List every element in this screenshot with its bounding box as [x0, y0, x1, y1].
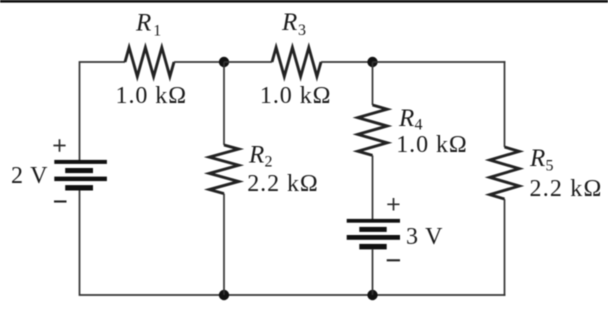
wire bottom right	[373, 294, 506, 296]
wire top-left (corner to R1)	[80, 62, 126, 160]
plus sign of V2	[387, 198, 399, 211]
resistor R4	[358, 105, 387, 155]
svg-text:1.0 kΩ: 1.0 kΩ	[260, 83, 332, 109]
minus sign of V1	[54, 200, 67, 202]
svg-text:3: 3	[298, 22, 306, 39]
wire top-right corner down to R5	[504, 61, 506, 147]
top rule bar	[0, 0, 608, 3]
svg-text:3 V: 3 V	[406, 224, 443, 250]
wire R5 to bottom-right corner	[504, 199, 506, 296]
svg-text:R: R	[281, 9, 297, 36]
wire node A to R3	[224, 61, 272, 63]
resistor R5	[490, 147, 519, 199]
wire R1 to node A	[174, 61, 224, 63]
bottom junction dot of R2 branch	[219, 290, 229, 300]
node A junction dot	[219, 57, 229, 67]
svg-text:R: R	[398, 105, 414, 132]
wire R2 to bottom	[223, 194, 225, 295]
svg-text:1: 1	[153, 22, 161, 39]
wire node B down to R4	[372, 62, 374, 105]
svg-text:2.2 kΩ: 2.2 kΩ	[247, 171, 319, 197]
resistor R2	[209, 145, 238, 194]
battery V1 2 V	[54, 160, 107, 191]
svg-text:2 V: 2 V	[11, 163, 48, 189]
svg-text:5: 5	[546, 157, 554, 174]
svg-text:R: R	[529, 145, 545, 172]
svg-text:R: R	[248, 141, 264, 168]
svg-text:2: 2	[265, 153, 273, 170]
resistor R1	[125, 48, 174, 77]
wire bottom middle	[224, 294, 373, 296]
bottom junction dot of battery V2 branch	[367, 290, 377, 300]
wire node B to top-right corner	[373, 61, 506, 63]
svg-text:1.0 kΩ: 1.0 kΩ	[116, 83, 188, 109]
svg-text:1.0 kΩ: 1.0 kΩ	[396, 132, 468, 158]
wire node A down to R2	[223, 62, 225, 145]
wire R4 to battery V2	[372, 155, 374, 219]
battery V2 3 V	[347, 219, 400, 250]
plus sign of V1	[53, 139, 65, 152]
minus sign of V2	[387, 259, 400, 261]
svg-text:4: 4	[415, 117, 423, 134]
resistor R3	[272, 48, 321, 77]
wire R3 to node B	[321, 61, 373, 63]
svg-text:R: R	[135, 10, 151, 37]
svg-text:2.2 kΩ: 2.2 kΩ	[530, 176, 603, 202]
wire battery V2 to bottom	[372, 249, 374, 295]
node B junction dot	[367, 57, 377, 67]
wire battery V1 to bottom-left corner	[80, 191, 225, 296]
